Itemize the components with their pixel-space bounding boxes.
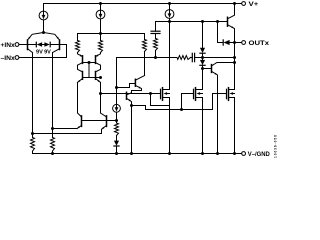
wire M1 drain column: [169, 22, 171, 90]
node lower base at right column: [99, 76, 102, 79]
node Q1-R1: [31, 132, 34, 135]
transistor Q7 driver NPN: [117, 84, 135, 88]
resistor R2: [52, 129, 54, 138]
wire gate bias bus: [132, 106, 213, 110]
node Q2-R2: [51, 127, 54, 130]
resistor R1: [32, 134, 34, 138]
svg-text:9V: 9V: [44, 49, 51, 55]
transistor Q10 output NPN: [218, 21, 227, 23]
transistor Q2 input PNP right: [44, 33, 60, 40]
wire lower base tie: [83, 77, 101, 79]
wire M2 drain column: [202, 69, 204, 90]
transistor Q4 upper-right PNP: [96, 53, 101, 57]
transistor Q8 driver NPN: [127, 93, 131, 95]
current source I3: [169, 4, 171, 10]
wire R6 to Q7 collector: [144, 52, 146, 76]
transistor Q9 NPN: [203, 68, 212, 70]
node Q8 emitter: [130, 104, 133, 107]
wire M2 source column: [202, 98, 204, 154]
diode Z2 9V zener: [51, 44, 60, 46]
diode Da: [202, 22, 204, 48]
terminal OUTx: [235, 42, 242, 44]
wire Q1 collector column: [32, 53, 34, 134]
node clamp tap: [216, 20, 219, 23]
node CS2 bias rail: [99, 32, 102, 35]
terminal V+: [242, 2, 246, 6]
wire M1 gate wire segment: [150, 93, 152, 95]
wire Q2 collector column: [52, 53, 54, 129]
wire comp rail right: [195, 57, 235, 59]
capacitor C1: [155, 22, 157, 32]
wire R6 top: [144, 34, 146, 40]
resistor R7: [155, 34, 157, 39]
svg-text:9V: 9V: [36, 49, 43, 55]
wire output column: [234, 43, 236, 90]
node rail Q9emitter: [216, 152, 219, 155]
node rail-CS3: [168, 2, 171, 5]
node tail: [42, 31, 45, 34]
svg-text:10036-056: 10036-056: [274, 134, 278, 158]
node Da top: [201, 20, 204, 23]
wire M1 source column: [169, 98, 171, 154]
transistor Q5 NPN: [78, 113, 82, 117]
wire top rail: [44, 3, 242, 5]
node right column gate tap: [99, 92, 102, 95]
wire Q5 emitter wire: [53, 128, 78, 130]
diode Z1 9V zener: [28, 44, 37, 46]
wire Q3-Q4 base tie: [83, 62, 96, 64]
wire base stub down: [88, 63, 90, 78]
node comp-output column: [233, 56, 236, 59]
resistor R5 comp: [177, 56, 191, 60]
node rail M3source: [233, 152, 236, 155]
transistor Q6 NPN: [101, 113, 107, 117]
wire -IN box to Q2 base: [19, 45, 67, 58]
current source I2: [100, 4, 102, 11]
node Q9 collector: [233, 61, 236, 64]
node rail R2: [51, 152, 54, 155]
svg-text:+INx: +INx: [1, 42, 16, 49]
svg-text:V+: V+: [249, 1, 259, 8]
resistor R6: [143, 40, 147, 52]
wire gate bus: [101, 93, 151, 95]
node M2 gate tap: [180, 108, 183, 111]
node Q3-Q4 base: [88, 61, 91, 64]
node comp-diode column: [201, 56, 204, 59]
terminal V-/GND: [242, 152, 246, 156]
node M1 gate tie: [149, 92, 152, 95]
mosfet M3: [226, 89, 228, 98]
resistor R3: [77, 34, 79, 41]
current source I1: [43, 4, 45, 12]
transistor Q3 upper-left PNP: [78, 53, 83, 57]
node CS3 bottom: [168, 20, 171, 23]
node OUT: [233, 41, 236, 44]
wire bias rail: [78, 33, 145, 35]
wire comp rail left: [117, 57, 178, 59]
capacitor C2 comp: [191, 57, 193, 59]
wire bottom rail: [33, 153, 242, 155]
diode Db: [200, 60, 205, 65]
wire M1 gate-source tie: [151, 94, 170, 106]
wire Q8 emitter column to rail: [131, 106, 133, 154]
wire M2 gate riser: [181, 94, 183, 110]
diode D4: [114, 141, 119, 146]
svg-text:OUTx: OUTx: [249, 40, 270, 47]
node rail M1source: [168, 152, 171, 155]
svg-text:V–/GND: V–/GND: [248, 151, 270, 158]
transistor Q1 input PNP left: [28, 33, 44, 40]
wire clamp column: [218, 22, 224, 43]
wire M3 source column: [234, 98, 236, 154]
node CS4 bottom: [115, 119, 118, 122]
resistor R8: [116, 121, 118, 124]
mosfet M1: [160, 89, 162, 98]
node rail D4: [115, 152, 118, 155]
wire CS3 top tap: [156, 21, 218, 23]
node comp column Q7 base: [115, 86, 118, 89]
node rail-Q10: [233, 2, 236, 5]
transistor Q6c lower-right: [96, 65, 101, 72]
current source I4: [116, 103, 118, 105]
node C1R7 bottom: [154, 56, 157, 59]
wire Q6 emitter wire: [33, 133, 102, 135]
mosfet M2: [193, 89, 195, 98]
node rail-CS2: [99, 2, 102, 5]
resistor R4: [100, 34, 102, 41]
wire +IN to Q1 base: [19, 44, 28, 46]
svg-text:–INx: –INx: [1, 55, 16, 62]
node Db-Q9 base: [201, 67, 204, 70]
node rail M2source: [201, 152, 204, 155]
wire Q5 Q6 base wire: [82, 120, 117, 122]
transistor Q5c lower-left: [78, 65, 83, 72]
diode D3 clamp: [222, 40, 224, 45]
wire M3 gate riser: [212, 94, 214, 110]
wire comp column: [116, 58, 118, 105]
node rail Q8col: [130, 152, 133, 155]
